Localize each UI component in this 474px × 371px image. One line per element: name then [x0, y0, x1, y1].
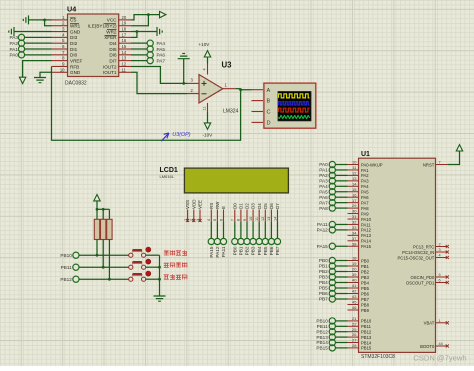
- svg-text:18: 18: [122, 27, 127, 32]
- wire PA0 to DI0: [25, 54, 52, 56]
- svg-text:WR1: WR1: [70, 24, 81, 29]
- svg-text:IOUT2: IOUT2: [103, 64, 117, 69]
- wire PB3 terminal to pin: [335, 276, 347, 278]
- svg-text:1: 1: [439, 319, 441, 323]
- svg-text:PA0-WKUP: PA0-WKUP: [361, 162, 383, 167]
- terminal PA11 at U1: [329, 221, 335, 227]
- svg-text:11: 11: [122, 67, 127, 72]
- svg-text:PA0: PA0: [319, 162, 328, 167]
- LCD pin 2 VDD: [190, 199, 197, 222]
- svg-text:D5: D5: [263, 203, 268, 209]
- svg-text:PA7: PA7: [361, 200, 369, 205]
- svg-text:45: 45: [352, 300, 357, 305]
- svg-text:PB1: PB1: [361, 264, 370, 269]
- power arrow down on VREF: [19, 77, 25, 83]
- waveform channel B blue square: [279, 102, 310, 105]
- svg-text:PA2: PA2: [319, 173, 328, 178]
- svg-text:CS: CS: [70, 18, 76, 23]
- LCD pin 5 RW: [213, 201, 220, 222]
- svg-text:PB10: PB10: [361, 319, 372, 324]
- svg-text:16: 16: [122, 38, 127, 43]
- svg-text:PB10: PB10: [316, 319, 328, 324]
- U1 right pin BOOT0: [420, 342, 449, 349]
- svg-text:41: 41: [352, 283, 357, 288]
- svg-text:GND: GND: [70, 70, 81, 75]
- label 改变波形: [164, 275, 169, 279]
- svg-text:DI3: DI3: [70, 35, 78, 40]
- svg-text:LM016L: LM016L: [160, 174, 175, 179]
- terminal PA2: [18, 40, 24, 46]
- svg-text:D: D: [267, 121, 271, 127]
- svg-text:PC15-OSC32_OUT: PC15-OSC32_OUT: [398, 255, 435, 260]
- svg-text:8: 8: [237, 219, 241, 221]
- LCD pin 3 VEE: [196, 200, 203, 222]
- svg-text:46: 46: [352, 305, 357, 310]
- terminal PA11: [220, 238, 226, 257]
- svg-text:U1: U1: [361, 151, 370, 158]
- ground for WR2/XFER: [157, 27, 162, 36]
- svg-text:PB0: PB0: [361, 258, 370, 263]
- waveform channel A yellow square: [279, 94, 310, 98]
- svg-text:PA13: PA13: [361, 233, 372, 238]
- U1 right pin NRST: [423, 161, 447, 168]
- power arrow -10V: [204, 123, 210, 129]
- U1 right pin PC15-OSC32_OUT: [398, 254, 449, 261]
- wire PA5 terminal to pin: [335, 191, 347, 193]
- svg-text:PA1: PA1: [9, 47, 18, 52]
- junction supply mid: [102, 208, 105, 211]
- svg-text:PA15: PA15: [209, 246, 214, 258]
- wire RFB feedback to op-amp output: [52, 66, 241, 140]
- svg-text:17: 17: [122, 32, 127, 37]
- ground for CS/WR1: [23, 15, 28, 24]
- oscilloscope pin C stub: [252, 111, 264, 113]
- svg-text:PB0: PB0: [319, 258, 328, 263]
- svg-text:B: B: [267, 99, 271, 105]
- wire LCD D3 to PB3: [252, 222, 254, 238]
- oscilloscope pin A stub: [252, 89, 264, 91]
- wire PB15 terminal to pin: [335, 347, 347, 349]
- svg-text:PA1: PA1: [361, 168, 369, 173]
- wire PB6 terminal to pin: [335, 293, 347, 295]
- svg-text:DI5: DI5: [109, 47, 117, 52]
- wire NRST to power arrow: [447, 151, 459, 165]
- terminal PA0: [18, 52, 24, 58]
- svg-text:VEE: VEE: [198, 200, 203, 209]
- svg-text:LCD1: LCD1: [160, 167, 178, 174]
- terminal PA0 at U1: [329, 161, 335, 167]
- svg-text:PA8: PA8: [361, 206, 369, 211]
- LCD pin 11 D4: [255, 203, 262, 222]
- junction supply: [96, 208, 99, 211]
- svg-text:PA15: PA15: [317, 244, 329, 249]
- svg-text:2: 2: [439, 243, 441, 247]
- svg-text:4: 4: [439, 254, 441, 258]
- svg-text:RS: RS: [209, 203, 214, 209]
- ground for U4 GND pin10: [34, 78, 46, 83]
- svg-text:PB14: PB14: [361, 340, 372, 345]
- svg-text:PB2: PB2: [245, 246, 250, 255]
- svg-text:32: 32: [352, 220, 357, 225]
- terminal PA2 at U1: [329, 172, 335, 178]
- wire PB12 terminal to pin: [335, 331, 347, 333]
- wire PA15 terminal to pin: [335, 245, 347, 247]
- resistor R1: [94, 219, 99, 239]
- terminal PA15 at U1: [329, 243, 335, 249]
- svg-text:7: 7: [439, 161, 441, 165]
- LCD pin 13 D6: [267, 203, 274, 222]
- svg-text:PB5: PB5: [263, 246, 268, 255]
- svg-text:15: 15: [352, 187, 357, 192]
- junction bus row3: [158, 278, 161, 281]
- svg-text:PB6: PB6: [361, 291, 370, 296]
- svg-text:11: 11: [255, 217, 259, 221]
- svg-text:D2: D2: [245, 203, 250, 209]
- svg-text:29: 29: [352, 203, 357, 208]
- svg-text:PB5: PB5: [361, 286, 370, 291]
- svg-text:25: 25: [352, 327, 357, 332]
- wire supply to resistors: [96, 201, 98, 219]
- svg-text:19: 19: [122, 21, 127, 26]
- wire PA11 terminal to pin: [335, 223, 347, 225]
- svg-text:5: 5: [439, 273, 441, 277]
- svg-text:D1: D1: [239, 203, 244, 209]
- svg-text:PA10: PA10: [361, 217, 372, 222]
- wire VCC to power arrow: [131, 15, 160, 20]
- resistor R2: [101, 219, 106, 239]
- terminal PA4 at U1: [329, 183, 335, 189]
- oscilloscope body: [264, 83, 316, 128]
- svg-text:NRST: NRST: [423, 162, 435, 167]
- svg-text:PB11: PB11: [317, 324, 329, 329]
- svg-text:DI6: DI6: [109, 53, 117, 58]
- svg-text:18: 18: [352, 256, 357, 261]
- U1 right pin OSCIN_PD0: [411, 273, 449, 280]
- wire IOUT2 to op-amp noninverting input: [131, 66, 187, 83]
- svg-text:PA4: PA4: [361, 184, 369, 189]
- svg-text:DI7: DI7: [109, 58, 117, 63]
- wire PB11 to button: [79, 266, 129, 268]
- wire PB0 terminal to pin: [335, 260, 347, 262]
- wire CS to ground: [29, 19, 52, 21]
- svg-text:31: 31: [352, 214, 357, 219]
- svg-text:PA7: PA7: [157, 58, 166, 63]
- junction VCC/ILE: [147, 13, 150, 16]
- terminal PA1 at U1: [329, 167, 335, 173]
- wire WR2 to ground: [131, 31, 157, 33]
- terminal PB1: [238, 238, 244, 255]
- svg-text:PA9: PA9: [361, 211, 369, 216]
- U1 right pin PC14-OSC32_IN: [402, 248, 449, 255]
- svg-text:PA6: PA6: [361, 195, 369, 200]
- U1 left pin stubs PA: [348, 164, 359, 166]
- svg-text:17: 17: [352, 198, 357, 203]
- wire DI5 to PA5: [131, 48, 147, 50]
- svg-text:10: 10: [352, 160, 357, 165]
- svg-text:38: 38: [352, 241, 357, 246]
- wire PB4 terminal to pin: [335, 282, 347, 284]
- svg-text:44: 44: [439, 342, 443, 346]
- svg-text:PA11: PA11: [221, 246, 226, 257]
- wire LCD RS to PA15: [210, 222, 212, 238]
- svg-text:13: 13: [267, 217, 271, 221]
- svg-text:PB4: PB4: [257, 246, 262, 255]
- svg-text:PB0: PB0: [232, 246, 237, 255]
- svg-text:U4: U4: [67, 4, 76, 13]
- svg-text:ILE(BY1/BY2): ILE(BY1/BY2): [88, 24, 117, 29]
- svg-text:DAC0832: DAC0832: [65, 80, 87, 86]
- wire LCD D6 to PB6: [270, 222, 272, 238]
- svg-text:D6: D6: [269, 203, 274, 209]
- svg-text:RFB: RFB: [70, 64, 79, 69]
- terminal PA5: [147, 46, 153, 52]
- svg-text:PA12: PA12: [215, 246, 220, 258]
- svg-text:STM32F103C8: STM32F103C8: [361, 354, 395, 360]
- terminal PA3: [18, 34, 24, 40]
- svg-text:28: 28: [352, 343, 357, 348]
- oscilloscope pin B stub: [252, 100, 264, 102]
- svg-text:PC13_RTC: PC13_RTC: [413, 244, 434, 249]
- svg-text:PA2: PA2: [361, 173, 369, 178]
- terminal PB11: [73, 264, 79, 270]
- svg-text:VCC: VCC: [107, 18, 117, 23]
- op-amp V+ pin 4 stub: [207, 64, 209, 75]
- svg-text:PA3: PA3: [319, 179, 328, 184]
- svg-text:PB4: PB4: [361, 280, 370, 285]
- terminal PB14 at U1: [329, 339, 335, 345]
- oscilloscope screen: [278, 92, 311, 121]
- wire PA1 to DI1: [25, 48, 52, 50]
- svg-text:PA1: PA1: [319, 168, 328, 173]
- terminal PB12: [73, 276, 79, 282]
- LCD pin 4 RS: [207, 203, 214, 222]
- op-amp output pin 1 stub: [223, 88, 236, 90]
- svg-text:PB12: PB12: [361, 330, 372, 335]
- power arrow +10V: [204, 51, 210, 57]
- op-amp pin 2 stub: [187, 93, 199, 95]
- terminal PB10: [73, 252, 79, 258]
- svg-text:PB3: PB3: [251, 246, 256, 255]
- svg-text:U3: U3: [222, 61, 233, 70]
- LCD1 screen body: [184, 168, 288, 193]
- wire PA7 terminal to pin: [335, 202, 347, 204]
- terminal PB3 at U1: [329, 274, 335, 280]
- svg-text:PB7: PB7: [361, 297, 370, 302]
- oscilloscope pin D stub: [252, 121, 264, 123]
- terminal PB5: [262, 238, 268, 255]
- wire LCD D0 to PB0: [234, 222, 236, 238]
- wire PB7 terminal to pin: [335, 298, 347, 300]
- terminal PA15: [208, 238, 214, 257]
- svg-text:30: 30: [352, 209, 357, 214]
- ground for buttons: [154, 296, 166, 301]
- svg-text:39: 39: [352, 272, 357, 277]
- svg-text:PA5: PA5: [361, 190, 369, 195]
- ground for U4 GND pin3: [9, 27, 14, 36]
- wire PB14 terminal to pin: [335, 342, 347, 344]
- terminal PB4: [256, 238, 262, 255]
- wire XFER riser: [131, 32, 137, 38]
- power arrow pull-up supply: [94, 195, 100, 201]
- svg-text:LM324: LM324: [223, 109, 239, 115]
- wire WR1 riser: [45, 20, 52, 26]
- wire LCD D4 to PB4: [258, 222, 260, 238]
- svg-text:A: A: [267, 88, 271, 94]
- svg-text:PA0: PA0: [9, 53, 18, 58]
- wire ILE riser: [131, 15, 148, 26]
- svg-text:PA3: PA3: [361, 179, 369, 184]
- wire PB10 terminal to pin: [335, 320, 347, 322]
- svg-text:BOOT0: BOOT0: [420, 344, 435, 349]
- wire PA12 terminal to pin: [335, 229, 347, 231]
- svg-text:20: 20: [352, 267, 357, 272]
- svg-text:PB5: PB5: [319, 286, 328, 291]
- terminal PB3: [250, 238, 256, 255]
- wire LCD D7 to PB7: [277, 222, 279, 238]
- wire DI6 to PA6: [131, 54, 147, 56]
- svg-text:PB1: PB1: [319, 264, 328, 269]
- power arrow right VCC: [160, 11, 166, 17]
- terminal PA3 at U1: [329, 178, 335, 184]
- wire GND pin3 to ground: [14, 31, 52, 33]
- svg-text:34: 34: [352, 230, 357, 235]
- svg-text:12: 12: [122, 61, 127, 66]
- power arrow NRST: [456, 145, 462, 151]
- svg-text:14: 14: [352, 181, 357, 186]
- svg-text:43: 43: [352, 294, 357, 299]
- svg-text:PB13: PB13: [361, 335, 372, 340]
- svg-text:4: 4: [203, 68, 207, 70]
- svg-text:PB2: PB2: [319, 269, 328, 274]
- wire PB11 terminal to pin: [335, 325, 347, 327]
- svg-text:3: 3: [439, 248, 441, 252]
- svg-text:XFER: XFER: [104, 35, 117, 40]
- terminal PB10 at U1: [329, 318, 335, 324]
- svg-text:VSS: VSS: [185, 200, 190, 209]
- wire PB1 terminal to pin: [335, 265, 347, 267]
- svg-text:D3: D3: [251, 203, 256, 209]
- LCD pin 9 D2: [243, 203, 250, 222]
- terminal PA8 at U1: [329, 205, 335, 211]
- LCD pin 1 VSS: [183, 200, 190, 222]
- wire IOUT1 to op-amp inverting input: [131, 72, 187, 93]
- waveform channel C red square: [279, 108, 310, 112]
- svg-text:PA4: PA4: [319, 184, 328, 189]
- wire PB5 terminal to pin: [335, 287, 347, 289]
- svg-text:RW: RW: [215, 201, 220, 209]
- wire PB13 terminal to pin: [335, 336, 347, 338]
- junction pull-up row 2: [102, 266, 105, 269]
- svg-text:PB13: PB13: [316, 335, 328, 340]
- svg-text:40: 40: [352, 278, 357, 283]
- svg-text:PB12: PB12: [60, 277, 72, 282]
- push button S2: [129, 259, 151, 269]
- svg-text:12: 12: [352, 171, 357, 176]
- LCD pin 6 E: [219, 206, 226, 222]
- svg-text:19: 19: [352, 261, 357, 266]
- wire DI4 to PA4: [131, 42, 147, 44]
- svg-text:PB7: PB7: [275, 246, 280, 255]
- svg-text:PA12: PA12: [317, 228, 329, 233]
- wire V- to -10V arrow: [207, 112, 209, 123]
- svg-text:PB3: PB3: [319, 275, 328, 280]
- op-amp plus sign: [202, 81, 207, 86]
- svg-text:12: 12: [261, 217, 265, 221]
- svg-text:U3(OP): U3(OP): [172, 132, 190, 138]
- terminal PA7: [147, 58, 153, 64]
- svg-text:GND: GND: [70, 29, 81, 34]
- terminal PB7 at U1: [329, 296, 335, 302]
- svg-text:PB9: PB9: [361, 308, 370, 313]
- svg-text:7: 7: [231, 219, 235, 221]
- terminal PB0: [232, 238, 238, 255]
- terminal PA6 at U1: [329, 194, 335, 200]
- wire V+ to +10V arrow: [207, 57, 209, 64]
- wire VREF to negative supply arrow: [23, 61, 52, 77]
- svg-text:PB7: PB7: [319, 297, 328, 302]
- U4 right pin stubs: [119, 19, 131, 21]
- svg-text:PB1: PB1: [239, 246, 244, 255]
- terminal PA12 at U1: [329, 227, 335, 233]
- svg-text:26: 26: [352, 332, 357, 337]
- svg-text:PA4: PA4: [157, 41, 166, 46]
- svg-text:D4: D4: [257, 203, 262, 209]
- LCD pin 10 D3: [249, 203, 256, 222]
- terminal PB1 at U1: [329, 263, 335, 269]
- svg-text:PA2: PA2: [9, 41, 18, 46]
- junction CS/WR1: [43, 19, 46, 22]
- svg-text:D0: D0: [232, 203, 237, 209]
- junction output feedback: [239, 88, 242, 91]
- svg-text:PA12: PA12: [361, 228, 372, 233]
- svg-text:DI1: DI1: [70, 47, 78, 52]
- svg-text:PB8: PB8: [361, 302, 370, 307]
- svg-text:PA7: PA7: [319, 200, 328, 205]
- junction WR2/XFER: [136, 30, 139, 33]
- wire resistor R3 bottom to row: [108, 240, 110, 280]
- terminal PB6: [268, 238, 274, 255]
- wire button S2 to ground bus: [146, 266, 160, 268]
- svg-text:PB6: PB6: [319, 291, 328, 296]
- svg-text:PA6: PA6: [157, 53, 166, 58]
- svg-text:PA15: PA15: [361, 244, 372, 249]
- svg-text:10: 10: [249, 217, 253, 221]
- svg-text:PA3: PA3: [9, 35, 18, 40]
- wire LCD D5 to PB5: [264, 222, 266, 238]
- terminal PB12 at U1: [329, 329, 335, 335]
- svg-text:PA11: PA11: [361, 222, 371, 227]
- junction noninverting node: [182, 82, 185, 85]
- terminal PA1: [18, 46, 24, 52]
- terminal PB15 at U1: [329, 345, 335, 351]
- wire PA4 terminal to pin: [335, 185, 347, 187]
- svg-text:13: 13: [352, 176, 357, 181]
- svg-text:21: 21: [352, 316, 357, 321]
- wire resistor R1 bottom to row: [96, 240, 98, 256]
- terminal PB5 at U1: [329, 285, 335, 291]
- U1 right pin OSCOUT_PD1: [406, 279, 449, 286]
- wire LCD D2 to PB2: [246, 222, 248, 238]
- svg-text:PB15: PB15: [316, 346, 328, 351]
- U1 right pin VBAT: [424, 319, 449, 326]
- svg-text:IOUT1: IOUT1: [103, 70, 117, 75]
- label 频率减少: [164, 263, 169, 267]
- svg-text:6: 6: [439, 279, 441, 283]
- svg-text:PB6: PB6: [269, 246, 274, 255]
- terminal PB6 at U1: [329, 290, 335, 296]
- svg-text:PB11: PB11: [61, 265, 73, 270]
- svg-text:16: 16: [352, 192, 357, 197]
